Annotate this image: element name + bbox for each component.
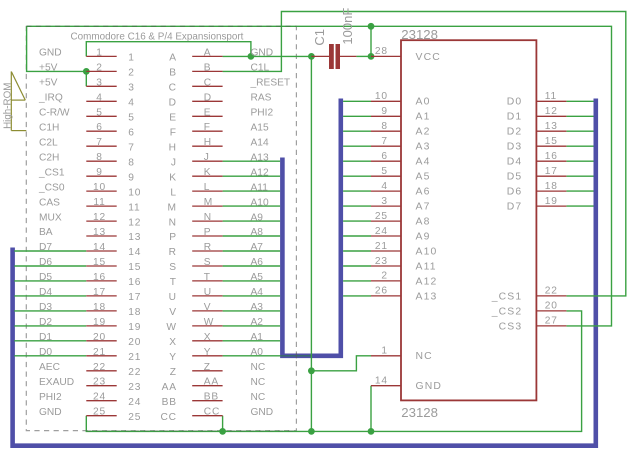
svg-text:NC: NC — [416, 351, 433, 362]
svg-text:22: 22 — [545, 286, 558, 297]
svg-text:H: H — [169, 142, 177, 153]
connector pin name GND — [39, 407, 62, 418]
svg-text:A0: A0 — [251, 347, 264, 358]
U1 pin 25 (A8) — [371, 211, 431, 228]
svg-text:100nF: 100nF — [340, 8, 355, 45]
wire: GND drop from connector pin CC — [222, 416, 224, 432]
svg-text:Y: Y — [169, 352, 177, 363]
svg-text:+5V: +5V — [39, 78, 58, 89]
wire: net A4 address bus to U1 — [343, 160, 371, 162]
op-amp n/a; IC U1 23128 body outline — [401, 40, 536, 400]
connector pin name MUX — [39, 212, 62, 223]
svg-text:BA: BA — [39, 227, 53, 238]
connector pin F (A15) right stub — [170, 122, 223, 138]
wire: net A9 address bus to U1 — [343, 235, 371, 237]
svg-text:24: 24 — [375, 226, 388, 237]
svg-text:_CS0: _CS0 — [38, 182, 65, 193]
svg-text:D0: D0 — [507, 97, 523, 108]
capacitor C1 right plate — [336, 44, 341, 69]
svg-text:14: 14 — [93, 242, 106, 253]
net/pin label GND — [251, 407, 274, 418]
connector pin name +5V — [39, 78, 58, 89]
svg-text:V: V — [204, 302, 212, 313]
net/pin label RAS — [251, 93, 272, 104]
connector pin 4 (_IRQ) left stub — [86, 92, 134, 108]
svg-text:11: 11 — [93, 197, 105, 208]
wire: net A4 connector pin U to address bus — [223, 295, 281, 297]
svg-text:1: 1 — [381, 346, 387, 357]
label flag High-ROM pole — [10, 72, 12, 131]
connector pin name D3 — [39, 302, 52, 313]
svg-text:A2: A2 — [251, 317, 264, 328]
svg-text:High-ROM: High-ROM — [2, 83, 13, 129]
U1 pin 6 (A4) — [371, 151, 431, 168]
svg-text:C1L: C1L — [251, 63, 270, 74]
wire: net A7 connector pin R to address bus — [223, 250, 281, 252]
connector pin P (A8) right stub — [169, 227, 222, 243]
connector pin name D0 — [39, 347, 52, 358]
svg-text:C2L: C2L — [39, 137, 58, 148]
wire: net A6 connector pin S to address bus — [223, 265, 281, 267]
svg-text:CC: CC — [160, 412, 176, 423]
svg-text:Z: Z — [204, 362, 211, 373]
connector pin name C-R/W — [39, 108, 70, 119]
svg-text:A13: A13 — [251, 152, 269, 163]
label flag High-ROM triangle hypotenuse — [11, 72, 25, 101]
svg-text:A7: A7 — [251, 242, 264, 253]
wire: net A11 address bus to U1 — [343, 265, 371, 267]
capacitor C1 right lead — [340, 55, 356, 57]
svg-text:_CS2: _CS2 — [491, 306, 523, 317]
svg-text:A1: A1 — [416, 112, 431, 123]
svg-text:_CS1: _CS1 — [38, 167, 65, 178]
connector pin C (_RESET) right stub — [169, 77, 223, 93]
svg-text:C-R/W: C-R/W — [39, 108, 70, 119]
net/pin label A0 — [251, 347, 264, 358]
net/pin label A15 — [251, 122, 269, 133]
U1 pin 12 (D1) — [507, 106, 567, 123]
capacitor C1 value 100nF — [340, 8, 355, 45]
net/pin label A9 — [251, 212, 264, 223]
net/pin label A2 — [251, 317, 264, 328]
wire: net D4 U1 to data bus — [566, 160, 593, 162]
svg-text:A8: A8 — [251, 227, 264, 238]
svg-text:3: 3 — [381, 196, 387, 207]
svg-text:21: 21 — [128, 352, 141, 363]
svg-text:25: 25 — [375, 211, 388, 222]
wire: +5V top rail across to CS3 (pin 27) — [27, 26, 612, 326]
svg-text:A1: A1 — [251, 332, 264, 343]
svg-text:A3: A3 — [251, 302, 264, 313]
label flag High-ROM pointer to C1H pin — [11, 130, 26, 132]
svg-text:A10: A10 — [416, 246, 438, 257]
U1 value 23128 (bottom) — [401, 405, 438, 420]
wire: net A12 connector pin K to address bus — [223, 175, 281, 177]
wire: net A6 address bus to U1 — [343, 190, 371, 192]
U1 pin 23 (A11) — [371, 256, 437, 273]
svg-text:D0: D0 — [39, 347, 52, 358]
svg-text:D2: D2 — [507, 127, 523, 138]
junction GND pin1/pinA — [248, 53, 255, 60]
svg-text:BB: BB — [162, 397, 177, 408]
U1 pin 13 (D2) — [507, 121, 567, 138]
svg-text:A7: A7 — [416, 202, 431, 213]
svg-text:15: 15 — [545, 136, 558, 147]
svg-text:D3: D3 — [39, 302, 52, 313]
svg-text:A3: A3 — [416, 142, 431, 153]
svg-text:20: 20 — [545, 301, 558, 312]
svg-text:20: 20 — [128, 337, 141, 348]
wire: net A2 address bus to U1 — [343, 130, 371, 132]
svg-text:K: K — [169, 172, 177, 183]
svg-text:C: C — [204, 77, 212, 88]
connector pin 14 (D7) left stub — [86, 242, 141, 258]
svg-text:CAS: CAS — [39, 197, 60, 208]
svg-text:U: U — [204, 287, 212, 298]
svg-text:D: D — [169, 98, 177, 109]
connector pin name +5V — [39, 63, 58, 74]
svg-text:P: P — [204, 227, 212, 238]
wire: net A12 address bus to U1 — [343, 280, 371, 282]
connector pin 10 (_CS0) left stub — [86, 182, 141, 198]
junction GND at C1 — [308, 53, 315, 60]
svg-text:A13: A13 — [416, 291, 438, 302]
svg-text:W: W — [166, 322, 176, 333]
U1 pin 20 (_CS2) — [491, 301, 567, 318]
svg-text:A5: A5 — [251, 272, 264, 283]
svg-text:C: C — [169, 83, 177, 94]
connector pin name C2L — [39, 137, 58, 148]
svg-text:2: 2 — [128, 68, 134, 79]
svg-text:3: 3 — [128, 83, 134, 94]
svg-text:A11: A11 — [416, 261, 437, 272]
U1 pin 28 (VCC) — [371, 46, 441, 63]
svg-text:GND: GND — [251, 407, 274, 418]
svg-text:26: 26 — [375, 286, 388, 297]
svg-text:5: 5 — [128, 113, 134, 124]
svg-text:GND: GND — [251, 48, 274, 59]
svg-text:17: 17 — [128, 292, 141, 303]
wire: GND bottom rail from pin 25 across and up to U1 _CS2 pin 20 — [86, 311, 581, 432]
svg-text:19: 19 — [545, 196, 558, 207]
connector pin 24 (PHI2) left stub — [86, 392, 141, 408]
svg-text:Commodore C16 & P/4 Expansions: Commodore C16 & P/4 Expansionsport — [71, 32, 244, 43]
svg-text:4: 4 — [128, 98, 134, 109]
svg-text:5: 5 — [381, 166, 387, 177]
svg-text:K: K — [204, 167, 212, 178]
connector pin 7 (C2L) left stub — [86, 137, 134, 153]
wire: net D2 data bus to connector pin 19 — [14, 325, 86, 327]
svg-text:BB: BB — [204, 392, 219, 403]
svg-text:A8: A8 — [416, 217, 431, 228]
junction +5V rail to VCC — [368, 23, 375, 30]
svg-text:8: 8 — [381, 121, 387, 132]
U1 pin 1 (NC) — [371, 346, 433, 363]
svg-text:23128: 23128 — [401, 405, 438, 420]
connector pin B (C1L) right stub — [169, 62, 222, 78]
junction GND pin14 — [368, 428, 375, 435]
capacitor C1 name label — [312, 29, 327, 46]
connector pin name CAS — [39, 197, 60, 208]
U1 pin 21 (A10) — [371, 241, 437, 258]
connector pin 23 (EXAUD) left stub — [86, 377, 141, 393]
connector pin 18 (D3) left stub — [86, 302, 141, 318]
wire: net D4 data bus to connector pin 17 — [14, 295, 86, 297]
svg-text:RAS: RAS — [251, 93, 272, 104]
svg-text:25: 25 — [128, 412, 141, 423]
wire: net A9 connector pin N to address bus — [223, 220, 281, 222]
connector pin name GND — [39, 48, 62, 59]
connector pin name _IRQ — [38, 93, 63, 104]
connector J1 dashed edge overlay on top rail — [26, 25, 296, 27]
wire: net A0 connector pin Y to address bus — [223, 355, 281, 357]
wire: net D2 U1 to data bus — [566, 130, 593, 132]
svg-text:A5: A5 — [416, 172, 431, 183]
connector pin BB (NC) right stub — [162, 392, 223, 408]
svg-text:D: D — [204, 92, 212, 103]
connector pin M (A10) right stub — [168, 197, 223, 213]
svg-text:22: 22 — [93, 362, 106, 373]
connector pin D (RAS) right stub — [169, 92, 223, 108]
connector pin name D6 — [39, 257, 52, 268]
connector pin name EXAUD — [39, 377, 74, 388]
connector pin name BA — [39, 227, 53, 238]
wire: net D0 U1 to data bus — [566, 100, 593, 102]
connector pin Y (A0) right stub — [169, 347, 222, 363]
svg-text:D6: D6 — [39, 257, 52, 268]
wire: net D7 data bus to connector pin 14 — [14, 250, 86, 252]
wire: GND drop from U1 pin 14 — [370, 386, 372, 432]
connector pin L (A11) right stub — [170, 182, 222, 198]
U1 pin 18 (D6) — [507, 181, 567, 198]
svg-text:H: H — [204, 137, 212, 148]
svg-text:A4: A4 — [416, 157, 431, 168]
svg-text:12: 12 — [128, 217, 141, 228]
svg-text:A14: A14 — [251, 137, 269, 148]
svg-text:18: 18 — [545, 181, 558, 192]
connector pin 5 (C-R/W) left stub — [86, 107, 134, 123]
junction +5V at pin 2 — [83, 68, 90, 75]
net/pin label A12 — [251, 167, 269, 178]
svg-text:F: F — [170, 127, 177, 138]
svg-text:A0: A0 — [416, 97, 431, 108]
svg-text:18: 18 — [128, 307, 141, 318]
svg-text:D1: D1 — [39, 332, 52, 343]
svg-text:E: E — [169, 113, 177, 124]
connector pin 6 (C1H) left stub — [86, 122, 134, 138]
wire: net A11 connector pin L to address bus — [223, 190, 281, 192]
connector pin 8 (C2H) left stub — [86, 152, 134, 168]
svg-text:13: 13 — [93, 227, 106, 238]
svg-text:A15: A15 — [251, 122, 269, 133]
svg-text:24: 24 — [93, 392, 106, 403]
U1 pin 7 (A3) — [371, 136, 431, 153]
label text High-ROM (rotated) — [2, 83, 13, 129]
U1 pin 14 (GND) — [371, 376, 442, 393]
svg-text:L: L — [170, 187, 176, 198]
U1 name 23128 (top) — [401, 27, 438, 42]
svg-text:Z: Z — [170, 367, 177, 378]
svg-text:Y: Y — [204, 347, 212, 358]
connector pin name D4 — [39, 287, 52, 298]
bus: data bus D0-D7 (left/bottom/right blue) — [13, 99, 596, 446]
connector pin name D7 — [39, 242, 52, 253]
connector pin 22 (AEC) left stub — [86, 362, 141, 378]
svg-text:S: S — [169, 262, 177, 273]
svg-text:E: E — [204, 107, 212, 118]
svg-text:NC: NC — [251, 377, 266, 388]
connector pin AA (NC) right stub — [162, 377, 223, 393]
wire: net D3 U1 to data bus — [566, 145, 593, 147]
svg-text:16: 16 — [93, 272, 106, 283]
wire: net A0 segment continuing over address bus — [280, 355, 311, 357]
svg-text:_CS1: _CS1 — [491, 291, 523, 302]
svg-text:T: T — [204, 272, 211, 283]
connector pin 3 (+5V) left stub — [86, 77, 134, 93]
connector pin name _CS0 — [38, 182, 65, 193]
capacitor C1 left plate — [329, 44, 334, 69]
svg-text:X: X — [169, 337, 177, 348]
svg-text:2: 2 — [96, 62, 102, 73]
connector pin E (PHI2) right stub — [169, 107, 222, 123]
svg-text:D2: D2 — [39, 317, 52, 328]
svg-text:7: 7 — [96, 137, 102, 148]
svg-text:11: 11 — [545, 91, 557, 102]
connector J1 Commodore C16 &amp; P/4 Expansionsport (dashed outline) — [26, 26, 296, 430]
svg-text:10: 10 — [93, 182, 106, 193]
svg-text:GND: GND — [39, 48, 62, 59]
wire: net A8 address bus to U1 — [343, 220, 371, 222]
svg-text:1: 1 — [128, 53, 134, 64]
svg-text:CC: CC — [204, 407, 220, 418]
connector J1 dashed right edge tick over address bus — [295, 353, 297, 358]
connector pin N (A9) right stub — [169, 212, 223, 228]
connector pin 16 (D5) left stub — [86, 272, 141, 288]
svg-text:14: 14 — [128, 247, 141, 258]
wire: net A3 address bus to U1 — [343, 145, 371, 147]
svg-text:AA: AA — [204, 377, 219, 388]
svg-text:21: 21 — [93, 347, 106, 358]
wire: net A2 connector pin W to address bus — [223, 325, 281, 327]
svg-text:C2H: C2H — [39, 152, 59, 163]
svg-text:U: U — [169, 292, 177, 303]
svg-text:6: 6 — [381, 151, 387, 162]
net/pin label A13 — [251, 152, 269, 163]
wire: net D1 data bus to connector pin 20 — [14, 340, 86, 342]
svg-text:A2: A2 — [416, 127, 431, 138]
net/pin label A5 — [251, 272, 264, 283]
svg-text:J: J — [171, 157, 177, 168]
connector pin name AEC — [39, 362, 60, 373]
capacitor C1 left lead — [311, 55, 329, 57]
svg-text:F: F — [204, 122, 211, 133]
connector pin 2 (+5V) left stub — [86, 62, 134, 78]
wire: net A10 address bus to U1 — [343, 250, 371, 252]
wire: net D7 U1 to data bus — [566, 205, 593, 207]
wire: C1L net from pin B up and around to U1 _CS1 pin 22 — [223, 12, 626, 296]
wire: +5V net from pins 2/3 up left edge to top rail — [27, 26, 87, 86]
connector pin A (GND) right stub — [169, 47, 222, 63]
svg-text:NC: NC — [251, 362, 266, 373]
svg-text:L: L — [204, 182, 210, 193]
wire: GND from pin 1 over to pin A row — [86, 42, 251, 57]
wire: GND vertical down from C1 to bottom rail — [310, 56, 312, 431]
svg-text:+5V: +5V — [39, 63, 58, 74]
connector pin 13 (BA) left stub — [86, 227, 141, 243]
svg-text:D1: D1 — [507, 112, 523, 123]
net/pin label A8 — [251, 227, 264, 238]
svg-text:A9: A9 — [416, 231, 431, 242]
svg-text:16: 16 — [128, 277, 141, 288]
svg-text:27: 27 — [545, 316, 558, 327]
svg-text:T: T — [170, 277, 177, 288]
svg-text:N: N — [169, 217, 177, 228]
U1 pin 26 (A13) — [371, 286, 437, 303]
wire: net D3 data bus to connector pin 18 — [14, 310, 86, 312]
svg-text:B: B — [204, 62, 212, 73]
svg-text:P: P — [169, 232, 177, 243]
svg-text:11: 11 — [128, 202, 140, 213]
connector J1 title label — [71, 32, 244, 43]
net/pin label PHI2 — [251, 108, 274, 119]
svg-text:M: M — [168, 202, 177, 213]
svg-text:AA: AA — [162, 382, 177, 393]
svg-text:B: B — [169, 68, 177, 79]
connector pin R (A7) right stub — [169, 242, 223, 258]
wire: net A0 address bus to U1 — [343, 100, 371, 102]
svg-text:A: A — [204, 47, 212, 58]
svg-text:5: 5 — [96, 107, 102, 118]
connector pin 15 (D6) left stub — [86, 257, 141, 273]
U1 pin 15 (D3) — [507, 136, 567, 153]
connector pin name _CS1 — [38, 167, 65, 178]
wire: net D5 U1 to data bus — [566, 175, 593, 177]
wire: net A5 connector pin T to address bus — [223, 280, 281, 282]
svg-text:6: 6 — [128, 127, 134, 138]
U1 pin 8 (A2) — [371, 121, 431, 138]
wire: net A1 connector pin X to address bus — [223, 340, 281, 342]
U1 pin 24 (A9) — [371, 226, 431, 243]
svg-text:7: 7 — [128, 142, 134, 153]
junction NC tie on GND vertical — [308, 367, 315, 374]
net/pin label A14 — [251, 137, 269, 148]
connector pin 21 (D0) left stub — [86, 347, 141, 363]
U1 pin 22 (_CS1) — [491, 286, 567, 303]
net/pin label NC — [251, 362, 266, 373]
svg-text:A11: A11 — [251, 182, 269, 193]
connector pin 11 (CAS) left stub — [86, 197, 140, 213]
connector pin S (A6) right stub — [169, 257, 222, 273]
svg-text:EXAUD: EXAUD — [39, 377, 74, 388]
svg-text:8: 8 — [96, 152, 102, 163]
svg-text:15: 15 — [128, 262, 141, 273]
svg-text:13: 13 — [128, 232, 141, 243]
svg-text:25: 25 — [93, 407, 106, 418]
svg-text:J: J — [204, 152, 210, 163]
bus: address bus A0-A13 (blue) — [282, 99, 340, 356]
U1 pin 9 (A1) — [371, 106, 431, 123]
connector pin X (A1) right stub — [169, 332, 222, 348]
svg-text:19: 19 — [93, 317, 106, 328]
U1 pin 5 (A5) — [371, 166, 431, 183]
connector pin 17 (D4) left stub — [86, 287, 141, 303]
connector pin W (A2) right stub — [166, 317, 222, 333]
connector pin 1 (GND) left stub — [86, 47, 134, 63]
wire: net D6 U1 to data bus — [566, 190, 593, 192]
net/pin label A10 — [251, 197, 269, 208]
svg-text:C1H: C1H — [39, 122, 59, 133]
svg-text:23: 23 — [93, 377, 106, 388]
